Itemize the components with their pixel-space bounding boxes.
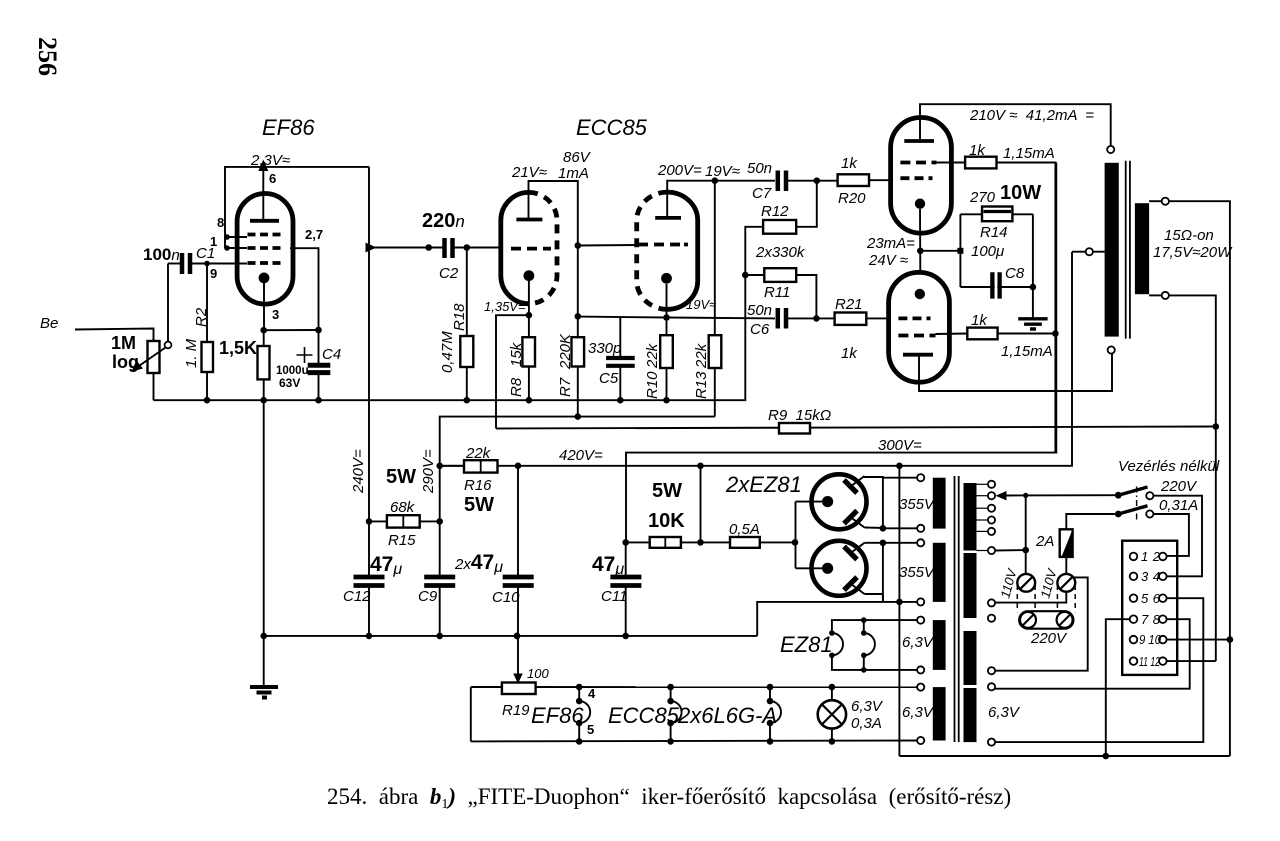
OT center tap [1093, 251, 1105, 253]
tube 6L6 lower [889, 272, 950, 382]
jumper tap vertical [1025, 495, 1027, 573]
EZ81 heater loop top [832, 620, 917, 633]
svg-text:6,3V~: 6,3V~ [902, 634, 942, 651]
svg-text:R9 15kΩ: R9 15kΩ [768, 407, 831, 424]
resistor R8 15k [522, 337, 535, 366]
svg-text:355V~: 355V~ [899, 564, 943, 581]
resistor 10K [626, 541, 650, 543]
svg-text:355V~: 355V~ [899, 496, 943, 513]
resistor 1k lower screen [967, 328, 997, 340]
top anode upper [851, 476, 865, 487]
upper screen wire [936, 162, 965, 164]
svg-text:1,15mA: 1,15mA [1003, 145, 1055, 162]
svg-text:6,3V: 6,3V [851, 698, 884, 715]
OT top terminal [1107, 146, 1114, 153]
svg-text:R14: R14 [980, 224, 1008, 241]
lamp [818, 700, 846, 728]
wire C6 to R21 [788, 317, 835, 319]
lower grid dashes [898, 316, 930, 320]
node3 wire to C4 top node [264, 329, 319, 331]
svg-text:200V=: 200V= [657, 162, 702, 179]
OT bottom terminal [1108, 346, 1115, 353]
switch 0,31A blade [1118, 506, 1147, 514]
top anode lower [851, 517, 865, 527]
triode1 grid dashes [511, 247, 551, 251]
svg-text:240V=: 240V= [350, 449, 367, 494]
svg-text:15k: 15k [508, 341, 525, 367]
svg-text:50n: 50n [747, 302, 772, 319]
resistor R20 [838, 174, 869, 186]
ground stem [263, 400, 265, 686]
heater EF86 [576, 684, 583, 691]
wire C1 left down to wiper [167, 264, 169, 342]
OT secondary [1135, 203, 1149, 294]
svg-text:21V≈: 21V≈ [511, 164, 547, 181]
potentiometer 1M log body [148, 341, 160, 373]
resistor R14 [982, 207, 1012, 222]
node 2,3V top rail [225, 167, 369, 248]
wire C2 to ECC85 grid [454, 247, 500, 249]
svg-text:R19: R19 [502, 702, 530, 719]
pin 2,7 stub and down wire [290, 248, 319, 330]
switch 0,31A pivot [1115, 511, 1122, 518]
svg-text:C12: C12 [343, 588, 371, 605]
arrow at 220V tap [996, 491, 1007, 500]
svg-text:22k: 22k [644, 342, 661, 369]
svg-text:1,5K: 1,5K [219, 338, 257, 358]
svg-text:10K: 10K [648, 510, 685, 532]
potentiometer R19 [502, 683, 536, 695]
capacitor C6 [778, 308, 786, 329]
input wire [75, 329, 154, 342]
bottom line [899, 755, 1230, 757]
capacitor C9 [424, 577, 455, 586]
svg-text:19V≈: 19V≈ [686, 297, 716, 312]
svg-text:6,3V: 6,3V [988, 704, 1021, 721]
svg-text:10W: 10W [1000, 182, 1041, 204]
capacitor C2 [445, 238, 453, 258]
svg-text:Be: Be [40, 315, 58, 332]
svg-text:C5: C5 [599, 370, 619, 387]
svg-text:C2: C2 [439, 265, 459, 282]
secondary bottom wire [1169, 295, 1216, 661]
capacitor C1 [168, 263, 181, 265]
capacitor C11 [625, 542, 627, 575]
switch 0,31A contact [1146, 510, 1153, 517]
pin 1 stub [225, 247, 247, 249]
wire C1 to grid [192, 263, 247, 265]
EF86 grid dashes row1 [248, 233, 281, 237]
R14 C8 network left vertical [959, 214, 961, 287]
bus corner to transformer [757, 602, 883, 636]
wire row7-8 left to bottom line [1106, 619, 1130, 756]
EF86 grid dashes row3 [248, 261, 281, 265]
svg-text:22k: 22k [465, 445, 492, 462]
tube ECC85 triode1 right dashed [529, 192, 557, 303]
EZ81 heater 1 [829, 630, 835, 636]
heater ECC85 [667, 684, 674, 691]
wires to transformer 355V top [883, 477, 917, 479]
resistor R2 1M [206, 264, 208, 343]
switch link dash-dot [1136, 487, 1138, 522]
wire row11-12 to speaker [1167, 660, 1216, 662]
svg-text:1,35V=: 1,35V= [484, 299, 526, 314]
svg-text:R12: R12 [761, 203, 789, 220]
svg-text:R15: R15 [388, 532, 416, 549]
wire C6 line [667, 317, 776, 320]
EZ81 heater 2 [863, 620, 865, 633]
wire rail corner up to R11 R12 column [744, 275, 745, 400]
lower screen dashes [898, 334, 935, 338]
EF86 top electrode bar [250, 219, 279, 223]
svg-text:2x6L6G-A: 2x6L6G-A [677, 703, 777, 728]
svg-text:256: 256 [33, 37, 62, 76]
svg-text:220V: 220V [1030, 630, 1068, 647]
triode2 anode bar [655, 216, 681, 220]
svg-text:300V=: 300V= [878, 437, 922, 454]
svg-text:EZ81: EZ81 [780, 632, 833, 657]
main ground rail [154, 399, 745, 401]
dashed alternates left [1017, 585, 1035, 612]
ground symbol right [1018, 319, 1047, 329]
resistor R12 330k [745, 227, 763, 275]
svg-text:270: 270 [969, 189, 996, 206]
resistor R13 22k [714, 181, 716, 336]
bottom cathode dot [822, 563, 833, 574]
tube 6L6 upper [891, 118, 952, 234]
secondary bottom terminal [1149, 294, 1162, 296]
tube ECC85 triode2 right solid [667, 192, 698, 309]
triode1 anode wire up [529, 181, 578, 246]
svg-text:23mA=: 23mA= [866, 235, 915, 252]
svg-text:8: 8 [217, 215, 224, 230]
svg-text:C6: C6 [750, 321, 770, 338]
svg-text:C10: C10 [492, 589, 520, 606]
svg-text:420V=: 420V= [559, 447, 603, 464]
svg-text:R7: R7 [557, 377, 574, 397]
x899 vertical [898, 466, 900, 756]
EF86 cathode wire to node3 [263, 283, 265, 330]
lower screen wire [936, 333, 968, 336]
resistor R11 330k [742, 272, 749, 279]
heater bus left end [470, 687, 472, 741]
svg-text:1 2: 1 2 [1141, 549, 1161, 564]
wire pin6 [262, 167, 264, 221]
wire R7 node to C5 [578, 316, 667, 319]
svg-text:Vezérlés nélkül: Vezérlés nélkül [1118, 458, 1220, 475]
capacitor C5 330p [619, 317, 621, 357]
left terminals [917, 474, 924, 744]
triode2 cathode wire [666, 284, 668, 318]
bottom ground bus [264, 635, 758, 637]
right terminals [988, 481, 995, 746]
wire jumper right bottom to tap [995, 592, 1066, 603]
capacitor C12 47u [368, 521, 370, 575]
wire 290V column [439, 466, 441, 575]
EZ81 heater loop bottom [832, 655, 917, 670]
svg-text:C4: C4 [322, 346, 341, 363]
svg-text:EF86: EF86 [262, 115, 315, 140]
svg-text:86V: 86V [563, 149, 592, 166]
triode1 anode bar [516, 218, 542, 222]
top cathode wire [796, 501, 823, 503]
right windings [964, 483, 977, 551]
upper cathode dot [915, 199, 925, 209]
svg-text:19V≈: 19V≈ [705, 163, 740, 180]
wire C7 line [715, 180, 775, 182]
wire row7-8 right to 6,3V right top [995, 619, 1190, 689]
resistor R7 220K [572, 337, 585, 366]
jumper capsule 220V [1019, 611, 1073, 629]
bottom cathode wire [796, 567, 823, 569]
svg-text:R20: R20 [838, 190, 866, 207]
svg-text:0,5A: 0,5A [729, 521, 760, 538]
svg-text:220n: 220n [422, 210, 465, 232]
wire row9-10 to speaker [1167, 639, 1230, 641]
svg-text:220K: 220K [557, 333, 574, 370]
svg-text:100n: 100n [143, 245, 180, 264]
svg-text:6,3V~: 6,3V~ [902, 704, 942, 721]
svg-text:6: 6 [269, 171, 276, 186]
R14 top wire [960, 213, 982, 215]
upper grid dashes [900, 176, 932, 180]
svg-text:5: 5 [587, 722, 594, 737]
resistor R21 [835, 313, 867, 325]
wire to C2 [369, 247, 443, 249]
wire C7 to R20 [788, 180, 838, 182]
svg-text:5W: 5W [652, 480, 682, 502]
svg-text:68k: 68k [390, 499, 416, 516]
svg-text:50n: 50n [747, 160, 772, 177]
capacitor C8 [992, 272, 999, 298]
svg-text:R18: R18 [451, 303, 468, 331]
svg-text:63V: 63V [279, 376, 300, 390]
capacitor C10 [517, 466, 519, 575]
svg-text:C1: C1 [196, 245, 215, 262]
jumper plug left [1017, 574, 1035, 592]
wire 420V line [440, 252, 1072, 466]
wire row5-6 to 6,3V right bottom [995, 598, 1203, 742]
wire 420V to 10K line [700, 466, 702, 543]
arrow up at pin6 rail [258, 160, 268, 172]
wire 240V vertical [368, 167, 370, 522]
pot bottom wire [153, 373, 155, 400]
svg-text:0,47M: 0,47M [439, 331, 456, 373]
resistor R18 0,47M [466, 248, 468, 337]
upper anode bar [904, 139, 934, 143]
svg-text:24V ≈: 24V ≈ [868, 252, 908, 269]
svg-text:R16: R16 [464, 477, 492, 494]
OT core [1126, 161, 1130, 339]
terminal numbers [1139, 549, 1162, 669]
C4 plus sign [297, 347, 313, 363]
triode2 grid dashes [638, 243, 688, 247]
wire 300V line [626, 163, 1056, 543]
cathode R14 junction wire [920, 250, 960, 252]
rectifier EZ81 bottom circle [812, 541, 867, 596]
switch 220V contact [1146, 492, 1153, 499]
lower cathode dot [915, 289, 925, 299]
svg-text:17,5V≈20W: 17,5V≈20W [1153, 244, 1233, 261]
svg-text:R2: R2 [193, 307, 210, 327]
svg-text:C7: C7 [752, 185, 772, 202]
svg-text:1mA: 1mA [558, 165, 589, 182]
triode1 cathode wire [528, 281, 530, 315]
resistor R10 22k [660, 335, 673, 368]
svg-text:0,31A: 0,31A [1159, 497, 1198, 514]
tube ECC85 triode2 left dashed [637, 192, 668, 309]
upper anode wire to 210V line [920, 104, 1111, 146]
svg-text:11 12: 11 12 [1139, 654, 1161, 669]
wire tap 550 [995, 549, 1026, 551]
svg-text:9: 9 [210, 266, 217, 281]
svg-text:2x330k: 2x330k [755, 244, 806, 261]
upper screen dashes [900, 161, 936, 165]
terminal block [1122, 541, 1177, 675]
resistor 1,5K cathode [258, 346, 270, 379]
svg-text:C9: C9 [418, 588, 438, 605]
heater 6L6 [767, 684, 774, 691]
resistor R9 [779, 423, 810, 434]
node 19V / R13 top [712, 177, 719, 184]
fuse 2A [1060, 529, 1073, 557]
potentiometer wiper contact [165, 342, 172, 349]
power transformer left windings [933, 478, 946, 529]
output transformer primary [1105, 163, 1119, 337]
svg-text:1k: 1k [841, 155, 858, 172]
svg-text:15Ω-on: 15Ω-on [1164, 227, 1214, 244]
resistor 1k upper screen [965, 157, 996, 169]
lower anode wire to OT bottom [919, 353, 1112, 391]
triode1 cathode dot [524, 270, 535, 281]
svg-text:ECC85: ECC85 [576, 115, 648, 140]
anode node vertical 86V [575, 242, 582, 249]
heater bus bottom [471, 740, 917, 743]
dashed alternates right [1057, 585, 1075, 612]
svg-text:290V=: 290V= [420, 449, 437, 494]
svg-text:3 4: 3 4 [1141, 569, 1160, 584]
svg-text:R21: R21 [835, 296, 863, 313]
svg-text:1. M: 1. M [183, 338, 200, 368]
ground symbol [250, 687, 278, 698]
bottom anode upper [851, 543, 865, 553]
secondary top wire down right side [1169, 201, 1230, 756]
svg-text:1M: 1M [111, 333, 136, 353]
arrow right at C2 line [366, 243, 377, 253]
svg-text:4: 4 [588, 686, 596, 701]
top cathode dot [822, 496, 833, 507]
resistor R16 22k [440, 465, 464, 467]
svg-text:R11: R11 [764, 284, 790, 301]
wire 220V contact to row3-4 [1153, 496, 1202, 577]
heater bus top [471, 686, 917, 688]
transformer core [955, 476, 959, 742]
svg-text:5W: 5W [386, 466, 416, 488]
grid2 wire [578, 244, 637, 247]
wire 0,31A pivot to fuse [1066, 514, 1115, 529]
cathode join vertical [795, 502, 797, 569]
svg-text:2A: 2A [1035, 533, 1054, 550]
svg-text:3: 3 [272, 307, 279, 322]
capacitor C4 electrolytic [318, 330, 320, 363]
wire jumper right top to 6,3V right top [995, 577, 1088, 670]
svg-text:R13: R13 [693, 371, 710, 399]
wire 290V line under rail [440, 417, 715, 466]
svg-text:100: 100 [527, 666, 549, 681]
svg-text:log: log [112, 352, 139, 372]
tube ECC85 triode1 left solid [501, 192, 529, 303]
capacitor C7 [778, 171, 786, 192]
wire tap to switch [1005, 494, 1118, 496]
tube EF86 [237, 194, 293, 305]
cathode junction wire [919, 209, 921, 272]
svg-text:2,7: 2,7 [305, 227, 323, 242]
svg-text:330p: 330p [588, 340, 621, 357]
svg-text:210V ≈ 41,2mA =: 210V ≈ 41,2mA = [969, 107, 1094, 124]
pin 8 stub [225, 236, 247, 238]
feedback line R9 [496, 427, 1216, 429]
svg-text:R10: R10 [644, 371, 661, 399]
bottom anode lower [851, 584, 865, 594]
svg-text:22k: 22k [693, 342, 710, 369]
svg-text:7 8: 7 8 [1141, 612, 1161, 627]
R19 wiper arrow [517, 636, 519, 676]
svg-text:5W: 5W [464, 494, 494, 516]
svg-text:R8: R8 [508, 377, 525, 397]
wire 0,31A contact to row1-2 [1153, 514, 1189, 556]
switch 220V blade [1118, 487, 1147, 495]
triode2 anode wire up [667, 181, 715, 218]
cathode feedback wire to R9 line [496, 315, 529, 428]
svg-text:C11: C11 [601, 588, 627, 605]
svg-text:1k: 1k [841, 345, 858, 362]
EF86 cathode dot [259, 273, 270, 284]
C8 bottom wire [960, 286, 1033, 288]
potentiometer wiper arrow [136, 348, 166, 369]
svg-text:9 10: 9 10 [1139, 632, 1162, 647]
svg-text:2xEZ81: 2xEZ81 [725, 472, 802, 497]
svg-text:1,15mA: 1,15mA [1001, 343, 1053, 360]
svg-text:254. ábra b1) „FITE-Duophon: 254. ábra b1) „FITE-Duophon“ iker-főerős… [327, 784, 1011, 812]
resistor R15 68k [369, 520, 387, 522]
svg-text:100μ: 100μ [971, 243, 1004, 260]
svg-text:220V: 220V [1160, 478, 1198, 495]
svg-text:5 6: 5 6 [1141, 591, 1161, 606]
svg-text:0,3A: 0,3A [851, 715, 882, 732]
triode2 cathode dot [661, 273, 672, 284]
svg-text:C8: C8 [1005, 265, 1025, 282]
jumper plug right [1057, 574, 1075, 592]
fuse to jumper [1065, 557, 1067, 574]
secondary top terminal [1149, 200, 1162, 202]
switch 220V pivot [1115, 492, 1122, 499]
lower anode bar [903, 353, 933, 357]
right vertical of network [1032, 214, 1034, 317]
fuse 0,5A [730, 537, 760, 548]
EF86 grid dashes row2 [248, 246, 281, 250]
rectifier EZ81 top circle [812, 474, 867, 529]
